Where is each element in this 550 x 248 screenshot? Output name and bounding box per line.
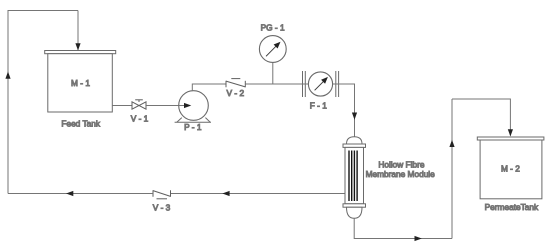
flow meter F-1 flanges bbox=[303, 71, 339, 97]
feed tank M-1 body bbox=[48, 54, 113, 112]
wire V-1 to pump bbox=[146, 105, 185, 107]
svg-text:Feed Tank: Feed Tank bbox=[61, 118, 100, 128]
feed tank M-1 lid bbox=[45, 51, 116, 54]
svg-text:PG - 1: PG - 1 bbox=[261, 22, 285, 32]
valve V-3 bbox=[153, 190, 171, 199]
svg-text:Hollow Fibre: Hollow Fibre bbox=[378, 160, 424, 170]
valve V-1 bbox=[132, 100, 146, 109]
flow meter F-1 body bbox=[308, 72, 332, 96]
arrow down into module bbox=[352, 113, 357, 120]
wire top-right run into permeate tank bbox=[452, 99, 510, 136]
svg-text:M - 2: M - 2 bbox=[501, 164, 520, 174]
wire return run (V-3 to left riser) bbox=[8, 193, 153, 195]
membrane fibres bbox=[349, 151, 357, 202]
permeate tank M-2 body bbox=[480, 140, 542, 199]
arrow up on left riser bbox=[5, 72, 10, 79]
membrane module top dome bbox=[347, 137, 363, 144]
wire feed tank outlet to V-1 bbox=[112, 105, 132, 107]
svg-text:V - 3: V - 3 bbox=[153, 202, 171, 212]
svg-text:V - 1: V - 1 bbox=[131, 114, 149, 124]
arrow into feed tank bbox=[75, 43, 80, 50]
wire right riser bbox=[451, 99, 453, 239]
arrow right on bottom outlet bbox=[415, 236, 422, 241]
pressure gauge PG-1 bbox=[259, 36, 286, 63]
valve V-2 bbox=[226, 79, 245, 88]
membrane module bottom dome bbox=[347, 207, 363, 218]
svg-text:P - 1: P - 1 bbox=[184, 122, 202, 132]
wire through F-1 bbox=[303, 83, 355, 85]
arrow on return line (left, near module side) bbox=[222, 191, 229, 196]
wire recycle-return bottom run (module to V-3) bbox=[171, 193, 346, 195]
arrow on return line (far left) bbox=[66, 191, 73, 196]
wire pump outlet riser to V-2 bbox=[192, 84, 226, 91]
svg-text:F - 1: F - 1 bbox=[310, 101, 327, 111]
svg-text:V - 2: V - 2 bbox=[227, 88, 245, 98]
arrow into permeate tank bbox=[508, 129, 513, 136]
wire left riser bbox=[8, 11, 78, 194]
membrane module top collar bbox=[343, 144, 366, 147]
membrane module bottom collar bbox=[343, 204, 366, 207]
membrane module shell bbox=[345, 147, 364, 203]
arrow up on right riser bbox=[449, 140, 454, 147]
wire drop into feed tank bbox=[77, 11, 79, 51]
svg-text:Membrane Module: Membrane Module bbox=[366, 169, 436, 179]
pressure gauge PG-1 stem bbox=[272, 62, 274, 84]
wire into pump with arrow bbox=[179, 105, 185, 107]
svg-text:PermeateTank: PermeateTank bbox=[485, 202, 539, 212]
PG-1 needle bbox=[266, 45, 277, 56]
wire V-2 to F-1 bbox=[245, 83, 302, 85]
permeate tank M-2 lid bbox=[477, 137, 544, 140]
wire F-1 to membrane module bbox=[339, 84, 355, 137]
wire module bottom outlet run bbox=[354, 218, 452, 238]
pump P-1 bbox=[175, 91, 211, 123]
svg-text:M - 1: M - 1 bbox=[71, 78, 90, 88]
F-1 needle bbox=[315, 80, 325, 90]
